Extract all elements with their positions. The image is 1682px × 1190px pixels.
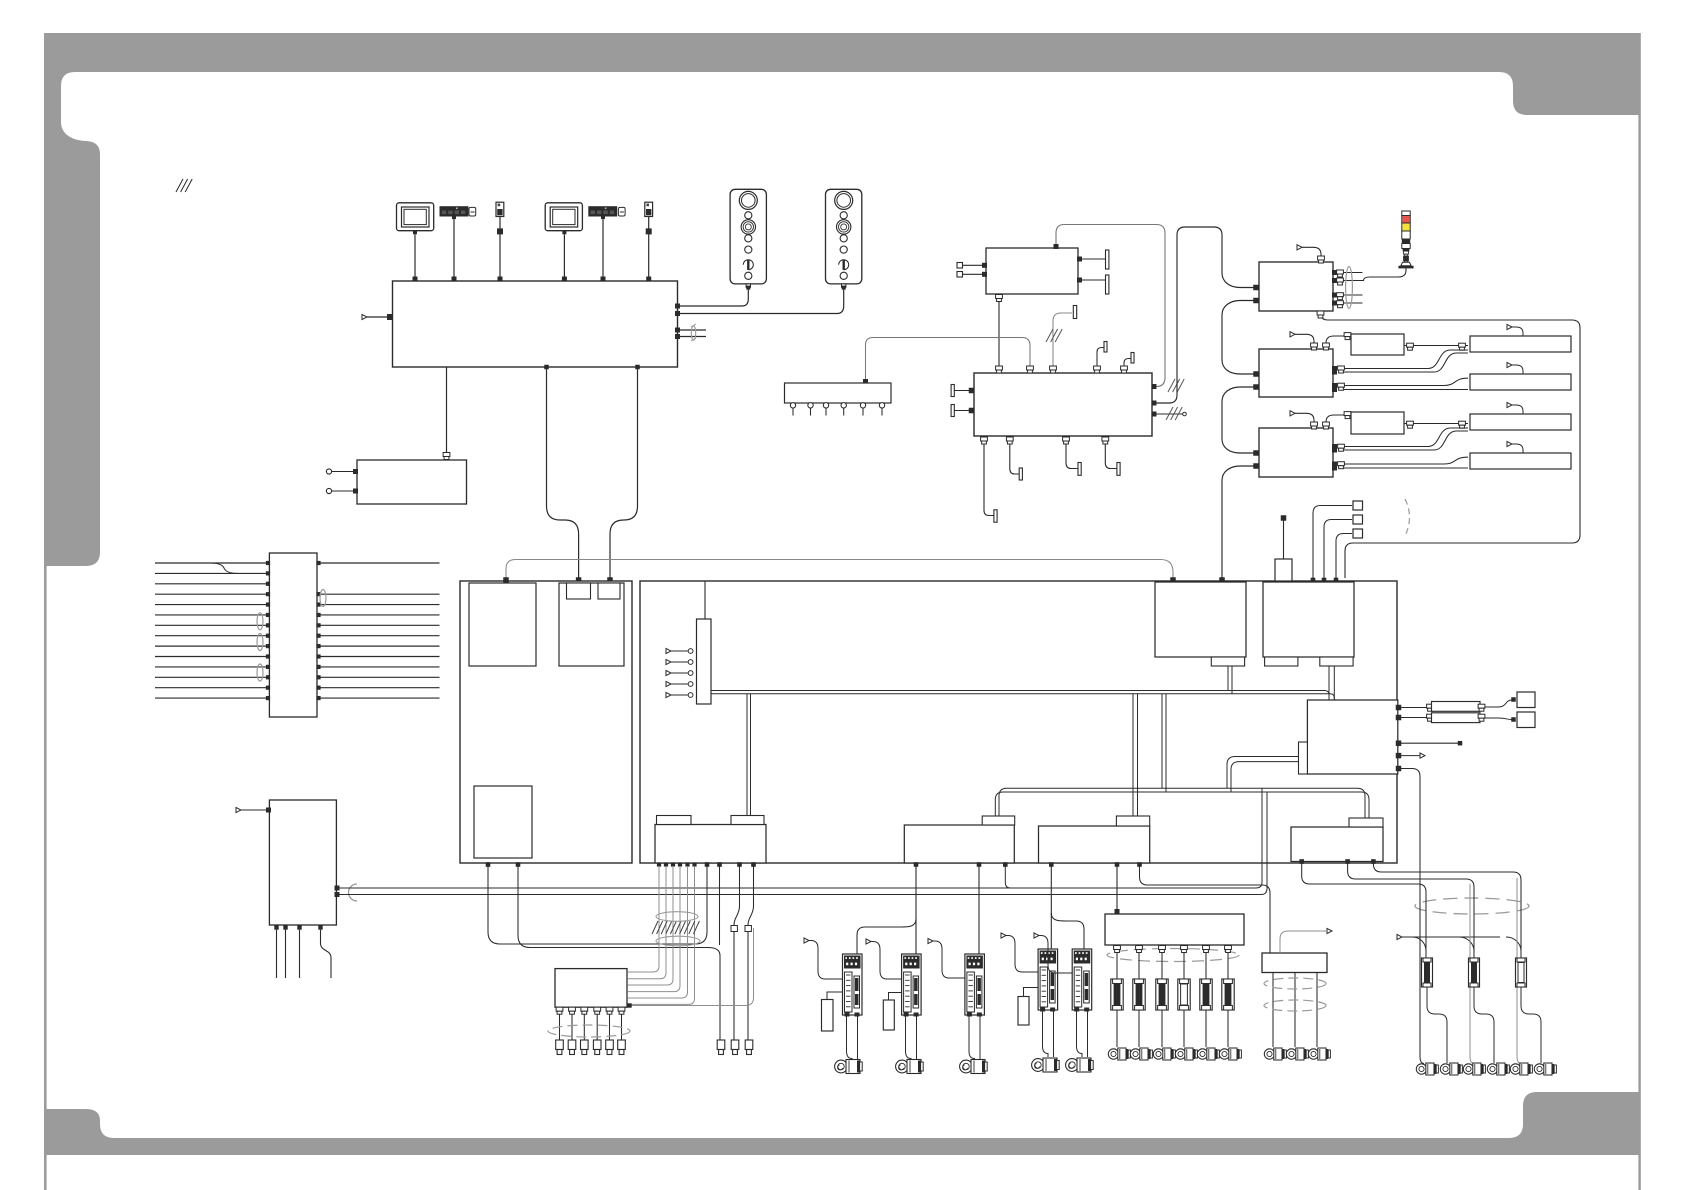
X1 pin 2: [808, 403, 813, 408]
header plug K2: [1353, 515, 1363, 524]
C right pair lower: [1334, 294, 1363, 296]
shield slash near PSU-B pin1: [1168, 379, 1175, 392]
A' top tab: [982, 816, 1015, 825]
regen resistor RG3: [1018, 997, 1029, 1026]
SD3 encoder pigtail: [928, 938, 933, 943]
regen resistor RG1: [822, 1000, 834, 1032]
right fuse FR1: [1422, 958, 1433, 987]
ferrite mark on stubs: [691, 326, 695, 340]
HMI1 connector: [413, 231, 417, 235]
bus pair P2: [999, 788, 1365, 818]
pendant control panel P2: [826, 189, 862, 284]
IO interface box IOB: [555, 969, 627, 1008]
ferrite coil on C outputs: [1346, 267, 1353, 309]
SD1 motor cables: [847, 1015, 853, 1059]
RB1 cable ellipse b: [1264, 1000, 1326, 1011]
G tab pair to H: [1328, 666, 1330, 700]
B' top tab: [1116, 816, 1149, 826]
FR2 output cable: [1474, 987, 1494, 1063]
U1 spare stub 2: [678, 336, 707, 338]
wire U1 to cabinet PCB B: [610, 367, 638, 578]
header input 3: [666, 670, 671, 675]
harness wire 1: [657, 862, 661, 866]
relay motor RM2: [1286, 1049, 1296, 1059]
wire KB2 to main PCB: [602, 219, 604, 277]
page frame right rule: [1638, 33, 1640, 1190]
IOB bottom cable 2: [569, 1007, 576, 1011]
servo motor M4: [1032, 1059, 1045, 1072]
page frame top band: [44, 33, 1640, 566]
valve motor VM1: [1108, 1049, 1118, 1059]
cable to plug CN2: [737, 862, 742, 867]
slot2 key notch a: [567, 583, 591, 599]
SD5 encoder pigtail: [1034, 933, 1039, 938]
TB1 right wire 12: [318, 676, 440, 678]
TB1 left wire 4: [155, 593, 268, 595]
TB1 right wire 9: [318, 645, 440, 647]
TB1 left wire 11: [155, 666, 268, 668]
VT1 output 5 with fuse F5: [1203, 946, 1210, 950]
wire U1 to comms box: [446, 367, 448, 453]
IO module notch a: [657, 816, 692, 825]
servo driver SD3: [965, 954, 985, 1015]
D to FA1 sense pair: [1340, 350, 1468, 369]
PSU-B bottom wire 3: [1066, 436, 1078, 469]
valve motor VM2: [1130, 1049, 1140, 1059]
wire KB1 to main PCB: [453, 219, 455, 277]
IOB bottom cable 6: [618, 1007, 625, 1011]
SF1 bottom wires: [274, 925, 278, 929]
harness wire 2: [664, 862, 668, 866]
wire U1 to pendant P2: [678, 287, 844, 313]
X1 pin 1: [790, 403, 795, 408]
PCB M bottom module I: [1291, 827, 1383, 862]
wire HT2 to plug S2: [1485, 718, 1512, 720]
right fuse FR3: [1516, 958, 1527, 987]
TB1 left wire 5: [155, 604, 268, 606]
page frame left rule: [44, 566, 47, 1190]
right motor RM9: [1534, 1064, 1544, 1074]
TB1 left wire 7: [155, 624, 268, 626]
PCB M bottom-left module IO: [655, 825, 766, 864]
plug CN1: [717, 1040, 725, 1050]
valve terminal box VT1: [1105, 914, 1244, 945]
PSU-B earth wire with bar: [1053, 313, 1072, 373]
SD2 motor cables: [906, 1015, 912, 1059]
regen resistor RG2: [883, 1000, 894, 1030]
M small top connector: [1275, 559, 1292, 581]
PSU-B bottom wire 1: [984, 436, 994, 516]
heater HT1: [1432, 702, 1481, 712]
TB1 right wire 8: [318, 635, 440, 637]
interlink jumper over PCBs: [506, 560, 1173, 579]
servo driver SD4: [1038, 949, 1058, 1010]
SD5 motor cables: [1077, 1010, 1083, 1057]
TB1 right wire 5: [318, 604, 440, 606]
right motor RM8: [1510, 1064, 1520, 1074]
I top tab: [1349, 818, 1383, 827]
fan FA1: [1470, 336, 1571, 352]
wire G pin3 to K3: [1336, 534, 1352, 579]
feeder line with branches: [1397, 934, 1402, 939]
fan PWM module J1: [1351, 334, 1404, 355]
X1 pin 5: [860, 403, 865, 408]
page frame bottom-left block: [44, 1109, 114, 1155]
TB1 left wire 9: [155, 645, 268, 647]
feed wire to SD4: [1050, 865, 1052, 949]
right motor RM6: [1463, 1064, 1473, 1074]
plug S2: [1511, 717, 1516, 722]
IOB plug 5: [606, 1040, 614, 1050]
SD4 encoder pigtail: [1001, 933, 1006, 938]
harness ellipse upper: [656, 912, 698, 922]
VT1 output 6 with fuse F6: [1225, 946, 1232, 950]
gray return wire: [629, 928, 754, 1006]
plug CN3: [745, 1040, 753, 1050]
wire HMI1 to main PCB: [414, 234, 416, 277]
PSU-B aux out bar 1: [1097, 348, 1104, 374]
relay motor RM1: [1264, 1049, 1274, 1059]
PSU-B bottom wire 4: [1105, 436, 1117, 469]
revision slash mark: [176, 179, 183, 192]
keypad KB1: [440, 206, 469, 216]
wire G pin2 to K2: [1324, 520, 1352, 579]
E aux wire to fan PWM J2: [1326, 415, 1345, 428]
TB1 left wire 13: [155, 687, 268, 689]
X1 pin 4: [841, 403, 846, 408]
E top pigtail: [1295, 413, 1314, 428]
C bottom loop wire to IO header: [1321, 311, 1581, 578]
PCB M sub-module F: [1155, 582, 1246, 657]
IO module notch b: [731, 816, 764, 825]
cabinet PCB M: [640, 581, 1397, 863]
G bottom tab right: [1320, 657, 1353, 666]
valve motor VM5: [1197, 1049, 1207, 1059]
IOB bottom cable 5: [606, 1007, 613, 1011]
TB1 right wire 14: [318, 697, 440, 699]
X1 pin 6: [879, 403, 884, 408]
wire tower to driver box C: [1334, 268, 1406, 280]
TB1 right wire 11: [318, 666, 440, 668]
wire PSU-B to DC bus: [1154, 227, 1222, 403]
FA4 pigtail: [1512, 444, 1523, 453]
branch feed to SD5: [1051, 913, 1084, 949]
PSU-B earth stub: [1154, 413, 1183, 415]
right cable bundle ellipse: [1415, 898, 1529, 914]
wire B' to relay box RB1: [1140, 863, 1271, 953]
relay motor RM3: [1308, 1049, 1318, 1059]
signal tower lamp: [1402, 211, 1410, 216]
U1 left input terminal: [362, 314, 367, 319]
main control PCB U1: [393, 281, 678, 367]
ferrite on TB1 left wire b: [257, 634, 263, 651]
IOB bottom cable 4: [594, 1007, 601, 1011]
harness wire 4: [678, 862, 682, 866]
stub pin: [717, 862, 722, 867]
VT1 output 2 with fuse F2: [1136, 946, 1143, 950]
page frame bottom band: [44, 1092, 1640, 1155]
F bottom tab: [1211, 657, 1244, 666]
F tab pair to Y1: [1227, 666, 1229, 691]
PSU-B bottom wire 2: [1010, 436, 1019, 474]
harness hatch bundle: [652, 921, 658, 934]
TB1 left wire 3: [155, 583, 268, 585]
comms box input 1: [326, 469, 331, 474]
PCB L bottom module: [474, 786, 532, 858]
SD1 encoder pigtail: [804, 938, 809, 943]
PSU-A input terminal 1: [957, 263, 963, 269]
right fuse FR2: [1469, 958, 1480, 987]
SF1 output pair P1 start: [335, 886, 340, 891]
Y1 branch pair to left notch: [746, 694, 748, 816]
PSU-A output 1 to breaker bar: [1078, 258, 1106, 260]
KB2 connector: [601, 217, 605, 220]
wire U1 to pendant P1: [678, 287, 749, 306]
fan PWM module J2: [1351, 412, 1404, 434]
servo motor M5: [1066, 1059, 1079, 1072]
slot2 key notch b: [598, 583, 620, 599]
FA3 pigtail: [1512, 405, 1523, 414]
H output 3 stub: [1398, 742, 1458, 744]
KB1 side icon: [469, 207, 476, 216]
SF1 top input: [236, 807, 241, 812]
fan FA2: [1470, 374, 1571, 390]
header input 5: [666, 692, 671, 697]
touch display HMI1: [397, 203, 434, 231]
H left tab: [1299, 742, 1308, 774]
valve motor VM6: [1219, 1049, 1229, 1059]
KB2 side icon: [618, 207, 625, 216]
FR3 output cable: [1521, 987, 1541, 1063]
servo driver SD1: [843, 954, 863, 1015]
valve motor VM4: [1175, 1049, 1185, 1059]
servo motor M2: [896, 1060, 909, 1073]
coil marker on P1: [349, 884, 358, 901]
TB1 left wire 10: [155, 656, 268, 658]
axis driver box E: [1259, 428, 1333, 477]
feed wire to SD2: [915, 865, 917, 954]
servo driver SD5: [1072, 949, 1092, 1010]
IOB plug 6: [618, 1040, 626, 1050]
wire PSU-B to aux connector strip: [866, 338, 1031, 382]
D to FA2 pair: [1340, 378, 1468, 385]
VT1 output 1 with fuse F1: [1114, 946, 1121, 950]
selector switch SW1: [496, 202, 504, 216]
H tab pair to P2: [1227, 757, 1299, 789]
RB1 sense pigtail: [1280, 931, 1326, 953]
PCB L module slot 1: [469, 583, 536, 666]
comms interface box: [357, 460, 467, 504]
TB1 left wire 12: [155, 676, 268, 678]
pendant control panel P1: [730, 189, 766, 284]
H output 2 to heater HT2: [1398, 717, 1428, 719]
H output 4 stub: [1398, 755, 1420, 757]
wire J1 to fan FA1: [1404, 345, 1468, 347]
servo motor M3: [960, 1060, 973, 1073]
pendant P2 connector: [842, 284, 846, 287]
aux gray line 2: [1470, 884, 1474, 1064]
SD4 motor cables: [1043, 1010, 1049, 1057]
touch display HMI2: [545, 203, 582, 231]
Y1 branch pair to B' tab: [1132, 694, 1134, 816]
HMI2 connector: [562, 231, 566, 235]
RB1 output 1: [1272, 973, 1274, 1048]
wire G pin1 to K1: [1313, 506, 1352, 579]
inter-board U link 2: [518, 863, 720, 1040]
inter-board U link 1: [488, 863, 707, 944]
IOB plug 3: [581, 1040, 589, 1050]
TB1 right wire 1: [318, 562, 440, 564]
wire HT1 to plug S1: [1485, 700, 1512, 707]
PCB M bottom module A': [904, 825, 1014, 863]
X1 pin 3: [823, 403, 828, 408]
right motor RM4: [1416, 1064, 1426, 1074]
SD3 motor cables: [969, 1015, 975, 1059]
right motor RM7: [1487, 1064, 1497, 1074]
servo driver SD2: [902, 954, 922, 1015]
branch feed to SD1: [857, 919, 916, 954]
PSU-A input terminal 2: [957, 272, 963, 278]
ferrite on TB1 left wire a: [257, 613, 263, 630]
D top pigtail: [1295, 334, 1314, 349]
TB1 left wire 1: [155, 562, 268, 564]
E to FA4 pair: [1340, 457, 1468, 464]
M input header strip: [697, 619, 712, 704]
power distribution PSU-B: [974, 373, 1152, 436]
PCB L module slot 2: [559, 583, 624, 666]
KB1 connector: [452, 217, 456, 220]
TB1 left wire 8: [155, 635, 268, 637]
RB1 cable ellipse a: [1264, 978, 1326, 989]
TB1 right wire 13: [318, 687, 440, 689]
bus pair Y1 header to H: [711, 691, 1329, 701]
heater HT2: [1432, 713, 1481, 723]
bus pair P1 long: [337, 788, 1262, 888]
wire PSU-A to PSU-B input: [1056, 225, 1165, 387]
wire SW2 to main PCB: [648, 217, 650, 278]
harness wire 3: [671, 862, 675, 866]
IOB bottom cable 3: [581, 1007, 588, 1011]
wire M to VT1: [1116, 865, 1118, 914]
IOB plug 2: [568, 1040, 576, 1050]
I output 3 cable to fuse FR3: [1373, 862, 1521, 959]
D aux wire to fan PWM J1: [1326, 336, 1345, 349]
plug CN2: [731, 1040, 739, 1050]
axis driver box C: [1259, 262, 1333, 311]
wire PSU-B from PSU-A bottom: [998, 294, 1000, 373]
harness wire 6: [692, 862, 696, 866]
TB1 right wire 4: [318, 593, 440, 595]
FA2 pigtail: [1512, 365, 1523, 374]
A' drop to P1: [1005, 863, 1010, 888]
VT1 cable ellipse: [1107, 949, 1239, 962]
TB1 left wire jumper curve: [210, 563, 238, 573]
wire SW1 to main PCB: [499, 217, 501, 278]
H output 5 long cable: [1398, 769, 1424, 1064]
G bottom tab left: [1265, 657, 1298, 666]
TB1 right wire 6: [318, 614, 440, 616]
VT1 output 3 with fuse F3: [1159, 946, 1166, 950]
harness ellipse lower: [656, 936, 700, 946]
header input 1: [666, 648, 671, 653]
aux connector strip X1: [785, 383, 892, 403]
U1 spare stub 1: [678, 329, 707, 331]
IOB cable bundle ellipse: [548, 1025, 630, 1037]
fan FA3: [1470, 414, 1571, 430]
ferrite on TB1 left wire c: [257, 664, 263, 681]
I output 2 cable to fuse FR2: [1348, 862, 1474, 959]
PSU-B left terminal 1: [951, 385, 954, 397]
right motor RM5: [1440, 1064, 1450, 1074]
header plug K1: [1353, 501, 1363, 510]
cable bundle dashed arc: [1405, 499, 1410, 536]
FA1 pigtail: [1512, 327, 1523, 336]
TB1 left wire 2: [155, 572, 268, 574]
TB1 right wire 7: [318, 624, 440, 626]
aux gray line 3: [1517, 878, 1521, 1064]
selector switch SW2: [645, 202, 653, 216]
pendant P1 connector: [746, 284, 750, 287]
PSU-B aux out bar 2: [1124, 359, 1131, 374]
RB1 output 3: [1316, 973, 1318, 1048]
C right pair upper: [1334, 272, 1363, 274]
wire J2 to fan FA3: [1404, 423, 1468, 425]
TB1 right wire 10: [318, 656, 440, 658]
valve motor VM3: [1153, 1049, 1163, 1059]
noise filter PSU-A: [986, 248, 1078, 294]
IOB plug 4: [593, 1040, 601, 1050]
wire U1 to cabinet PCB A: [547, 367, 579, 578]
SD2 encoder pigtail: [866, 939, 871, 944]
wire HMI2 to main PCB: [563, 234, 565, 277]
header input 4: [666, 681, 671, 686]
header plug K3: [1353, 529, 1363, 538]
Y1 branch pair to P2: [1161, 694, 1163, 788]
TB1 left wire 6: [155, 614, 268, 616]
I output 1 cable to fuse FR1: [1302, 862, 1426, 959]
H output 1 to heater HT1: [1398, 707, 1428, 709]
ferrite on TB1 right wire: [320, 590, 326, 607]
PCB M sub-module G: [1263, 582, 1354, 657]
keypad KB2: [588, 206, 617, 216]
safety interface box SF1: [269, 800, 336, 925]
comms box input 2: [326, 488, 331, 493]
RB1 output 2: [1294, 973, 1296, 1048]
relay box RB1: [1262, 953, 1327, 973]
DC bus riser: [1222, 273, 1254, 288]
E to FA3 sense pair: [1340, 428, 1468, 447]
VT1 output 4 with fuse F4: [1181, 946, 1188, 950]
IOB bottom cable 1: [556, 1007, 563, 1011]
PSU-B left terminal 2: [951, 405, 954, 417]
header input 2: [666, 659, 671, 664]
C top pigtail: [1302, 247, 1321, 262]
wire top connector antenna: [1283, 518, 1285, 559]
harness wire 5: [685, 862, 689, 866]
plug S1: [1511, 697, 1516, 702]
cable to plug CN3: [751, 862, 756, 867]
servo motor M1: [835, 1060, 848, 1073]
fan FA4: [1470, 453, 1571, 469]
PSU-A output 2 to breaker bar: [1078, 279, 1106, 281]
TB1 left wire 14: [155, 697, 268, 699]
axis driver box D: [1259, 349, 1333, 397]
feed wire to SD3: [978, 865, 980, 954]
IOB plug 1: [556, 1040, 564, 1050]
wire header to top edge: [704, 581, 706, 619]
cabinet PCB L: [460, 581, 632, 863]
relay sub-module H: [1307, 700, 1397, 774]
